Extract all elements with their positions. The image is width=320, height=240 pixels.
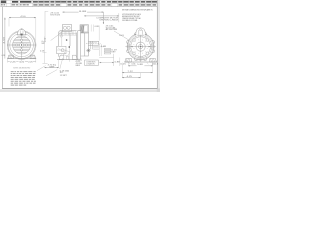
- svg-text:3.75 SQ: 3.75 SQ: [48, 64, 57, 66]
- svg-text:0.19: 0.19: [40, 51, 44, 53]
- svg-text:SEE CATALOG FOR DATA: SEE CATALOG FOR DATA: [122, 19, 138, 22]
- svg-text:0.25: 0.25: [120, 63, 126, 65]
- svg-text:KEYWAY DIMENSIONS SHOWN ARE IN: KEYWAY DIMENSIONS SHOWN ARE IN: [122, 8, 153, 11]
- svg-text:AS SHOWN: AS SHOWN: [106, 28, 119, 31]
- svg-text:0.88: 0.88: [95, 26, 99, 28]
- svg-text:1.88: 1.88: [101, 46, 106, 48]
- svg-text:1.5: 1.5: [19, 61, 24, 63]
- svg-text:0.88: 0.88: [115, 61, 120, 63]
- svg-text:0.19: 0.19: [111, 50, 117, 52]
- svg-text:0.28: 0.28: [2, 55, 6, 57]
- svg-text:MTG HOLES: MTG HOLES: [50, 14, 60, 16]
- svg-text:SHOWN C-FACE: SHOWN C-FACE: [99, 18, 119, 21]
- svg-text:0.41: 0.41: [132, 63, 136, 65]
- svg-text:(2)0.3: (2)0.3: [152, 63, 158, 65]
- svg-text:2.25: 2.25: [28, 61, 32, 63]
- svg-text:4X RIB: 4X RIB: [76, 63, 82, 65]
- svg-text:0.41: 0.41: [76, 61, 81, 63]
- svg-text:0.41: 0.41: [119, 35, 124, 37]
- svg-text:2.25: 2.25: [10, 61, 15, 63]
- svg-text:CONN BOX: CONN BOX: [86, 61, 95, 63]
- svg-text:NOTES: UNLESS NOTED: NOTES: UNLESS NOTED: [13, 68, 31, 70]
- svg-text:1/2 NPT: 1/2 NPT: [60, 75, 67, 77]
- svg-text:0.41: 0.41: [42, 41, 47, 43]
- svg-text:NPT: NPT: [42, 43, 46, 45]
- svg-text:5.88: 5.88: [137, 64, 143, 66]
